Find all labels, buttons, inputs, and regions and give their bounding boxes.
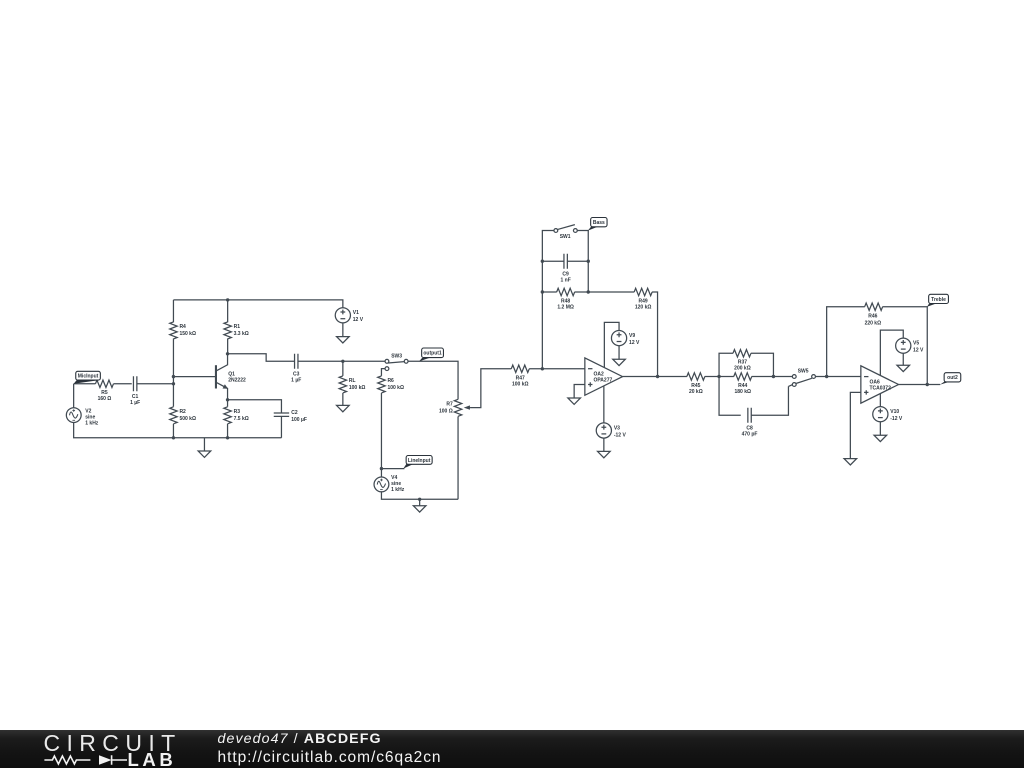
svg-text:-12 V: -12 V: [890, 416, 903, 422]
svg-text:Bass: Bass: [593, 220, 605, 226]
svg-text:MicInput: MicInput: [78, 374, 99, 380]
svg-text:220 kΩ: 220 kΩ: [865, 321, 882, 327]
svg-text:3.3 kΩ: 3.3 kΩ: [234, 331, 249, 337]
svg-text:R4: R4: [179, 324, 186, 330]
svg-text:SW1: SW1: [560, 234, 571, 240]
svg-text:R3: R3: [234, 409, 241, 415]
svg-text:1 µF: 1 µF: [291, 378, 301, 384]
svg-text:100 kΩ: 100 kΩ: [512, 381, 529, 387]
svg-text:V5: V5: [913, 341, 919, 347]
svg-text:V1: V1: [353, 310, 359, 316]
svg-text:LineInput: LineInput: [408, 458, 431, 464]
svg-text:160 Ω: 160 Ω: [98, 396, 112, 402]
svg-text:1 nF: 1 nF: [561, 278, 571, 284]
svg-text:100 kΩ: 100 kΩ: [349, 385, 366, 391]
svg-text:100 Ω: 100 Ω: [439, 409, 453, 415]
svg-text:V3: V3: [614, 425, 620, 431]
svg-text:100 µF: 100 µF: [291, 417, 307, 423]
svg-text:500 kΩ: 500 kΩ: [179, 416, 196, 422]
svg-text:SW5: SW5: [798, 369, 809, 375]
svg-text:Treble: Treble: [931, 297, 946, 303]
svg-text:SW3: SW3: [391, 353, 402, 359]
svg-text:12 V: 12 V: [629, 340, 640, 346]
svg-text:V9: V9: [629, 333, 635, 339]
svg-text:12 V: 12 V: [353, 317, 364, 323]
svg-text:output1: output1: [423, 351, 442, 357]
svg-text:C2: C2: [291, 410, 298, 416]
svg-text:200 kΩ: 200 kΩ: [734, 366, 751, 372]
svg-text:1.2 MΩ: 1.2 MΩ: [557, 305, 574, 311]
svg-text:12 V: 12 V: [913, 348, 924, 354]
svg-text:R2: R2: [179, 409, 186, 415]
svg-text:-12 V: -12 V: [614, 432, 627, 438]
svg-text:out2: out2: [947, 375, 958, 381]
svg-text:120 kΩ: 120 kΩ: [635, 305, 652, 311]
svg-text:R6: R6: [387, 378, 394, 384]
svg-text:1 kHz: 1 kHz: [391, 487, 405, 493]
svg-text:100 kΩ: 100 kΩ: [387, 385, 404, 391]
svg-text:V10: V10: [890, 409, 899, 415]
svg-text:1 kHz: 1 kHz: [85, 420, 99, 426]
svg-text:R1: R1: [234, 324, 241, 330]
svg-text:R46: R46: [868, 314, 877, 320]
svg-text:7.5 kΩ: 7.5 kΩ: [234, 416, 249, 422]
svg-text:R7: R7: [446, 402, 453, 408]
svg-text:20 kΩ: 20 kΩ: [689, 389, 703, 395]
svg-text:470 pF: 470 pF: [742, 431, 758, 437]
svg-text:2N2222: 2N2222: [228, 377, 246, 383]
svg-text:1 µF: 1 µF: [130, 400, 140, 406]
svg-text:180 kΩ: 180 kΩ: [734, 389, 751, 395]
svg-text:OPA277: OPA277: [593, 377, 612, 383]
svg-text:LAB: LAB: [128, 749, 177, 769]
svg-text:150 kΩ: 150 kΩ: [179, 331, 196, 337]
svg-text:RL: RL: [349, 378, 356, 384]
svg-text:TCA0372: TCA0372: [869, 385, 891, 391]
